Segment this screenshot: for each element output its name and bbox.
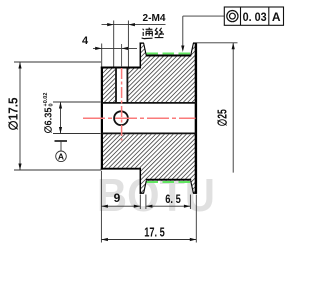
hatch body upper	[140, 43, 196, 102]
si: bottom stroke	[155, 35, 164, 38]
control frame leader v	[182, 16, 184, 46]
dim 9 arrows	[101, 205, 108, 208]
bore bottom line	[102, 132, 197, 134]
dia17.5 arrow down	[18, 164, 21, 171]
svg-text:0. 03: 0. 03	[243, 10, 267, 24]
dia17.5 ext bottom	[14, 169, 102, 171]
ext hole left above	[113, 21, 115, 67]
dia25 dim line	[232, 43, 234, 173]
outline: right face	[195, 43, 197, 194]
svg-text:6. 5: 6. 5	[165, 192, 181, 206]
outline: hub left face	[101, 67, 103, 170]
dim 4 line	[93, 47, 137, 49]
ext hole right above	[127, 21, 129, 67]
M4 hole wall right	[126, 68, 128, 103]
svg-text:∅6.35: ∅6.35	[44, 107, 55, 133]
M4 hole wall left	[115, 68, 117, 103]
datum bar	[55, 140, 68, 142]
svg-text:A: A	[272, 10, 281, 24]
dia17.5 ext top	[14, 61, 101, 63]
ext flange-left-outer below	[139, 195, 141, 210]
ext flange-left-inner below	[145, 195, 147, 210]
ext right-face below	[195, 195, 197, 243]
dim 4 arrow left at hole center	[122, 47, 129, 50]
datum stem	[60, 141, 62, 151]
dia25 arrow up	[232, 43, 235, 50]
outline: left flange inner slant	[144, 43, 147, 55]
dia6.35 ext top	[53, 101, 101, 103]
dia6.35 arrow up	[59, 102, 62, 109]
ext hole center above	[121, 44, 123, 67]
svg-text:A: A	[58, 152, 64, 162]
svg-text:2-M4: 2-M4	[143, 12, 166, 24]
line A arrow left tip	[128, 23, 135, 26]
dia6.35 arrow down	[59, 127, 62, 134]
dim 17.5 arrows	[101, 238, 108, 241]
green tooth dashes top	[147, 52, 191, 54]
dim 6.5 arrows	[146, 205, 153, 208]
green tooth dashes bottom	[147, 181, 191, 183]
svg-text:0: 0	[49, 103, 55, 106]
svg-text:17. 5: 17. 5	[144, 225, 165, 239]
dia6.35 text	[43, 93, 55, 134]
ext flange-right-inner below	[189, 195, 191, 210]
dim 17.5 line	[101, 239, 196, 241]
line A arrow right tip	[107, 23, 114, 26]
leader arrow down	[181, 46, 184, 53]
si: two yao zigzags	[155, 28, 164, 35]
hatch hub lower	[103, 134, 141, 168]
tongsi CJK glyphs	[142, 28, 164, 39]
M4 far-side hole circle	[114, 111, 128, 125]
M4 dim line A	[102, 24, 166, 26]
svg-text:∅25: ∅25	[216, 109, 230, 126]
dia17.5 dim line	[19, 62, 21, 170]
tong: walking radical	[142, 29, 153, 39]
outline: hub top edge	[101, 67, 141, 69]
hatch hub upper-right	[128, 69, 140, 103]
control frame box	[224, 7, 283, 25]
svg-text:9: 9	[114, 191, 121, 205]
concentricity symbol	[227, 11, 238, 22]
dim 4 arrow right at hub face	[95, 47, 102, 50]
outline: left flange outer face	[139, 43, 141, 69]
dia6.35 dim line	[60, 102, 62, 134]
svg-text:4: 4	[82, 35, 89, 47]
tong: yong part	[146, 28, 153, 37]
hatch hub upper-left	[103, 69, 116, 103]
outline: hub bottom edge	[101, 168, 141, 170]
red centerline horizontal	[83, 117, 196, 119]
dia17.5 arrow up	[18, 62, 21, 69]
outline: left flange top/bottom edge	[140, 42, 144, 44]
datum circle A	[56, 151, 67, 162]
dim 9 line	[101, 205, 140, 207]
control frame leader h	[183, 15, 225, 17]
outline: tooth bottom line	[146, 179, 191, 181]
red centerline vertical	[121, 68, 123, 141]
dia25 ext line	[196, 42, 237, 44]
outline: right flange inner slant	[191, 43, 194, 55]
ext hub face above	[101, 44, 103, 67]
outline: tooth top line	[146, 55, 191, 57]
svg-text:∅17.5: ∅17.5	[7, 97, 21, 130]
outline: right flange top/bottom edge	[193, 42, 197, 44]
bore top line	[102, 102, 197, 104]
dim 6.5 line	[146, 205, 191, 207]
hatch body lower	[140, 134, 196, 193]
dia6.35 ext bottom	[53, 133, 101, 135]
ext hub-left below	[100, 171, 102, 243]
